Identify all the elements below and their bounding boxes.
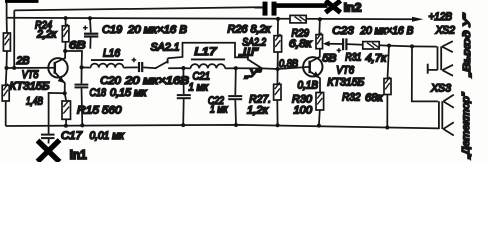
svg-text:VT5: VT5 — [22, 69, 39, 81]
In2 thick annotation bar — [276, 3, 328, 8]
junction dot collector/L16/C18 node — [80, 65, 84, 69]
wire output node to XS2 pin — [412, 45, 437, 47]
svg-text:0,01 мк: 0,01 мк — [90, 130, 125, 142]
svg-text:20 мк×16 В: 20 мк×16 В — [359, 25, 413, 37]
svg-text:1 мк: 1 мк — [210, 104, 228, 116]
wire base node to R27 — [276, 69, 278, 84]
collector node dot VT5 — [63, 49, 67, 53]
junction dot R29 rail — [318, 17, 322, 21]
svg-text:L17: L17 — [194, 46, 217, 58]
resistor R29 — [316, 35, 323, 49]
wire У path (SA2.1 lower contact to L17) — [168, 67, 183, 69]
svg-text:КТ315Б: КТ315Б — [10, 81, 50, 93]
wire L16 to C20 — [123, 66, 137, 68]
connector XS2 — [428, 41, 453, 76]
wire rail to R23a — [6, 18, 8, 33]
wire rail to R24 — [65, 18, 67, 26]
resistor R31 (horizontal) — [363, 42, 379, 49]
svg-text:КТ315Б: КТ315Б — [327, 76, 364, 88]
wire node to L16 — [82, 66, 91, 68]
capacitor C19 (electrolytic) — [83, 18, 98, 48]
svg-text:20 мк×16 В: 20 мк×16 В — [127, 24, 187, 36]
wire R27 to ground rail — [276, 100, 278, 125]
resistor R26 — [274, 36, 282, 52]
svg-text:„Ш”: „Ш” — [238, 47, 259, 59]
svg-text:R31: R31 — [345, 51, 361, 63]
wire R31 to output node — [379, 45, 412, 46]
resistor R23a (upper bias resistor, cut label) — [3, 33, 10, 51]
wire R24 to collector node — [64, 42, 66, 51]
switch SA2.1 — [156, 58, 168, 68]
arrowhead +12V — [412, 17, 423, 22]
wire R23a to base node — [6, 51, 8, 68]
resistor R15 — [62, 101, 71, 119]
junction dot C22 ground — [234, 123, 238, 127]
junction dot base divider — [5, 66, 9, 70]
svg-text:С17: С17 — [61, 130, 83, 142]
svg-text:560: 560 — [102, 105, 122, 117]
svg-text:„Выход У”: „Выход У” — [462, 13, 473, 78]
junction dot L17 right node — [234, 66, 238, 70]
junction dot R27 ground — [276, 123, 280, 127]
In1 X marker — [38, 140, 60, 162]
junction dot C21 ground — [181, 123, 185, 127]
svg-text:С23: С23 — [332, 25, 354, 37]
wire emitter to C17 — [49, 93, 65, 134]
svg-text:„У”: „У” — [244, 68, 262, 80]
svg-text:20 мк×16В: 20 мк×16В — [124, 75, 189, 87]
wire R23b to ground rail — [5, 101, 7, 126]
base wire VT5 — [7, 67, 54, 69]
wire from bar down to supply rail corner — [6, 3, 8, 18]
junction dot R30 ground — [317, 124, 321, 128]
wire emitter to R15 — [65, 93, 67, 101]
capacitor C17 — [41, 135, 55, 144]
inductor L16 — [91, 60, 124, 68]
svg-text:SA2.1: SA2.1 — [151, 42, 180, 54]
svg-text:0,8В: 0,8В — [279, 58, 298, 70]
junction dot C18 ground — [80, 123, 84, 127]
svg-text:С20: С20 — [100, 75, 121, 87]
wire vertical line A down to VT5 base line — [13, 10, 15, 68]
inductor L17 — [183, 59, 235, 68]
resistor R23b (lower bias resistor, cut label) — [2, 85, 9, 101]
wire rail to R26 — [277, 19, 279, 36]
wire R30 to ground — [318, 110, 321, 126]
svg-text:ХS2: ХS2 — [435, 25, 455, 37]
svg-text:С19: С19 — [102, 24, 122, 36]
svg-text:R32: R32 — [342, 92, 360, 104]
base feed line A from In2 cap — [14, 7, 262, 10]
capacitor C18 — [75, 67, 89, 125]
svg-text:2,2к: 2,2к — [36, 29, 57, 41]
junction dot R15 ground — [64, 124, 68, 128]
svg-text:L16: L16 — [103, 48, 120, 60]
wire rail to R29 — [318, 19, 321, 34]
svg-text:1 мк: 1 мк — [189, 82, 209, 94]
wire C20 to SA2.1 — [143, 66, 156, 69]
svg-text:1,2к: 1,2к — [247, 104, 269, 116]
svg-text:5В: 5В — [322, 53, 336, 65]
svg-text:In2: In2 — [344, 0, 362, 14]
transistor VT6 — [303, 57, 322, 76]
svg-text:0,15 мк: 0,15 мк — [110, 87, 148, 99]
junction dot R24 rail — [64, 16, 68, 20]
junction dot R32 tap — [387, 44, 391, 48]
resistor R32 — [384, 79, 391, 95]
wire R15 to ground — [65, 119, 67, 125]
resistor R24 — [62, 26, 69, 42]
svg-text:R26: R26 — [228, 23, 248, 35]
svg-text:„Детектор”: „Детектор” — [461, 92, 472, 160]
junction dot C19 rail — [88, 16, 92, 20]
ground rail (bottom bus) — [6, 125, 439, 128]
svg-text:С18: С18 — [90, 87, 107, 99]
connector XS3 — [439, 95, 454, 136]
switch SA2.2 — [236, 60, 309, 69]
capacitor C20 (electrolytic, series) — [132, 58, 143, 73]
supply rail +12V (horizontal bus) — [7, 18, 414, 19]
svg-text:0,1В: 0,1В — [298, 79, 319, 91]
junction dot R26 rail — [276, 17, 280, 21]
capacitor C21 — [177, 68, 191, 125]
resistor R28 (supply decoupling, horizontal) — [290, 15, 307, 23]
svg-text:6,8к: 6,8к — [289, 38, 313, 50]
svg-text:6В: 6В — [69, 39, 86, 51]
junction dot L17 left node — [181, 66, 185, 70]
junction dot line A on base wire — [12, 66, 16, 70]
svg-text:VT6: VT6 — [336, 65, 354, 77]
arrow to C23 (collector tap) — [323, 41, 330, 47]
svg-text:1,4В: 1,4В — [26, 96, 43, 108]
In2 coupling capacitor (thick annotation) — [263, 2, 268, 16]
svg-text:68к: 68к — [365, 92, 384, 104]
resistor R30 — [316, 93, 324, 111]
annotation bar top-left (cut off) — [5, 0, 39, 3]
resistor R27 — [274, 84, 281, 100]
wire base node to R23b — [5, 68, 8, 85]
In2 X marker — [326, 1, 341, 13]
svg-text:In1: In1 — [70, 147, 87, 162]
junction dot VT6 base divider — [276, 67, 280, 71]
capacitor C22 — [228, 68, 242, 125]
wire R26 to base node — [277, 52, 279, 69]
svg-text:2В: 2В — [15, 55, 29, 67]
svg-text:+12В: +12В — [429, 11, 453, 23]
wire output down to XS3 — [412, 46, 438, 101]
contact hook Ш (SA2.2) — [247, 55, 249, 61]
svg-text:R15: R15 — [77, 105, 100, 117]
capacitor C23 — [337, 38, 363, 52]
svg-text:4,7к: 4,7к — [365, 52, 387, 64]
junction dot output node — [410, 44, 414, 48]
junction dot R32 ground — [385, 126, 389, 130]
svg-text:ХS3: ХS3 — [430, 82, 451, 94]
wire output node to R32 — [388, 46, 390, 79]
emitter node dot VT5 — [63, 91, 67, 95]
svg-text:100: 100 — [294, 105, 313, 117]
svg-text:8,2к: 8,2к — [251, 23, 272, 35]
wire collector node to LC node — [65, 51, 82, 67]
L17 bypass route (Ш path over coil) — [168, 43, 247, 59]
transistor VT5 — [48, 58, 67, 77]
wire R32 to ground — [386, 95, 388, 128]
